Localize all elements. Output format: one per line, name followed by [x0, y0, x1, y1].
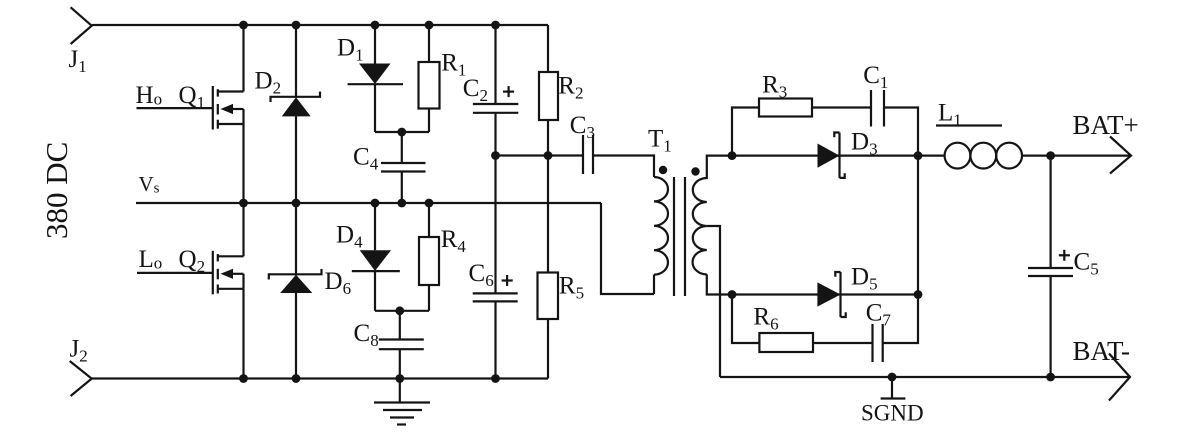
- svg-text:BAT-: BAT-: [1073, 336, 1131, 366]
- junction BAT- C5 node: [1046, 373, 1055, 382]
- junction top rail Q1: [239, 21, 248, 30]
- svg-text:R5: R5: [559, 273, 584, 303]
- wire top rail: [92, 24, 548, 26]
- svg-text:380 DC: 380 DC: [39, 142, 74, 239]
- svg-text:C5: C5: [1074, 249, 1099, 279]
- wire center tap to SGND rail: [707, 226, 720, 377]
- junction D1R1-C4: [397, 128, 406, 137]
- connector J1: [71, 7, 92, 44]
- svg-text:D3: D3: [851, 128, 878, 158]
- junction secondary top node: [728, 151, 737, 160]
- wire cap midpoint to C3: [496, 154, 584, 156]
- wire bottom rail: [92, 377, 548, 379]
- junction D3 cathode node: [914, 151, 923, 160]
- capacitor C5: [1028, 156, 1073, 377]
- capacitor C2: [473, 25, 518, 156]
- svg-text:SGND: SGND: [861, 401, 924, 426]
- junction bottom rail C8 ground: [395, 374, 404, 383]
- resistor R5: [538, 156, 559, 379]
- svg-text:C1: C1: [863, 62, 888, 92]
- wire D1 R1 join: [375, 131, 429, 133]
- junction D4R4-C8: [395, 306, 404, 315]
- capacitor C6: [473, 156, 518, 379]
- junction top rail C2: [491, 21, 500, 30]
- junction top rail D2: [292, 21, 301, 30]
- zener D6: [269, 203, 322, 379]
- transistor Q1: [213, 86, 244, 130]
- junction mid wire R2R5: [544, 151, 553, 160]
- wire D4 R4 join: [375, 310, 429, 312]
- junction bottom rail Q2: [239, 374, 248, 383]
- wire C1 to D3 cathode: [884, 108, 918, 156]
- ground SGND: [881, 377, 906, 399]
- capacitor C1: [871, 90, 884, 127]
- wire secondary bottom to D5: [732, 293, 918, 295]
- junction Vs R4: [425, 199, 434, 208]
- junction bottom rail C6: [491, 374, 500, 383]
- svg-text:T1: T1: [648, 126, 672, 156]
- svg-text:R3: R3: [762, 72, 787, 102]
- junction secondary bottom node: [728, 290, 737, 299]
- L1 underline: [936, 124, 1002, 126]
- diode D3 schottky: [818, 133, 845, 178]
- connector BAT-: [1109, 354, 1130, 401]
- transformer core: [674, 177, 685, 296]
- junction L1 C5 node: [1046, 151, 1055, 160]
- wire Q2 gate lead: [137, 272, 213, 274]
- transformer T1 primary winding: [654, 177, 668, 294]
- svg-text:C8: C8: [354, 320, 379, 350]
- resistor R2: [539, 25, 558, 156]
- polarity dot primary: [659, 166, 667, 174]
- svg-text:C2: C2: [463, 75, 488, 105]
- wire Vs bus: [136, 202, 601, 204]
- svg-text:Ho: Ho: [136, 82, 163, 109]
- transformer T1 secondary winding: [693, 156, 732, 295]
- capacitor C3: [583, 135, 593, 174]
- svg-text:R6: R6: [753, 303, 778, 333]
- junction Vs C4: [397, 199, 406, 208]
- junction SGND node: [888, 373, 897, 382]
- inductor L1: [918, 143, 1130, 169]
- wire Q2 source down: [242, 289, 244, 379]
- svg-text:BAT+: BAT+: [1073, 110, 1139, 140]
- diode D1: [348, 25, 403, 132]
- svg-text:C4: C4: [353, 144, 379, 174]
- junction top rail D1: [371, 21, 380, 30]
- ground earth symbol: [374, 379, 430, 425]
- wire snubber left R3: [732, 108, 759, 156]
- wire C3 to primary top: [593, 156, 654, 178]
- svg-text:D2: D2: [255, 68, 282, 98]
- wire R3 to C1: [812, 106, 871, 108]
- junction Vs Q1: [239, 199, 248, 208]
- capacitor C8: [379, 311, 424, 379]
- svg-text:D1: D1: [337, 34, 364, 64]
- svg-text:C7: C7: [866, 299, 892, 329]
- svg-text:R4: R4: [441, 226, 467, 256]
- svg-text:Lo: Lo: [139, 246, 163, 273]
- junction mid wire C2C6: [491, 151, 500, 160]
- diode D5 schottky: [817, 272, 845, 317]
- capacitor C4: [381, 132, 426, 203]
- diode D4: [352, 203, 400, 311]
- wire rectifier output link: [917, 156, 919, 295]
- junction D5 cathode node: [914, 290, 923, 299]
- svg-text:D4: D4: [336, 222, 363, 252]
- transistor Q2: [213, 251, 244, 294]
- resistor R6: [759, 333, 813, 352]
- junction Vs D4: [371, 199, 380, 208]
- svg-text:D5: D5: [851, 263, 878, 293]
- junction Vs D2: [292, 199, 301, 208]
- svg-text:C6: C6: [469, 260, 494, 290]
- svg-text:Q2: Q2: [179, 246, 206, 276]
- resistor R4: [419, 203, 439, 311]
- svg-text:D6: D6: [325, 268, 352, 298]
- wire snubber left R6: [732, 295, 759, 344]
- wire Q2 drain to Vs: [242, 203, 244, 256]
- plus sign C6: [502, 275, 513, 286]
- junction top rail R1: [425, 21, 434, 30]
- wire C7 to D5 cathode: [883, 295, 918, 344]
- zener D2: [271, 25, 321, 203]
- svg-text:J1: J1: [69, 46, 87, 76]
- wire Q1 drain up: [242, 25, 244, 92]
- resistor R1: [419, 25, 440, 132]
- wire R6 to C7: [813, 342, 873, 344]
- svg-text:Vs: Vs: [139, 172, 160, 197]
- wire Vs to primary bottom: [601, 203, 654, 294]
- svg-text:J2: J2: [70, 336, 88, 366]
- wire BAT- rail: [720, 376, 1130, 378]
- label C5 plus: [1059, 250, 1070, 261]
- connector J2: [70, 361, 92, 396]
- polarity dot secondary: [691, 167, 699, 175]
- plus sign C2: [503, 86, 514, 97]
- wire secondary top to D3: [732, 155, 918, 157]
- connector BAT+: [1110, 137, 1131, 174]
- wire Q1 gate lead: [137, 107, 213, 109]
- svg-text:R2: R2: [558, 73, 583, 103]
- junction bottom rail D6: [292, 374, 301, 383]
- capacitor C7: [873, 324, 883, 362]
- wire Q1 source to Vs: [242, 124, 244, 203]
- resistor R3: [759, 99, 812, 117]
